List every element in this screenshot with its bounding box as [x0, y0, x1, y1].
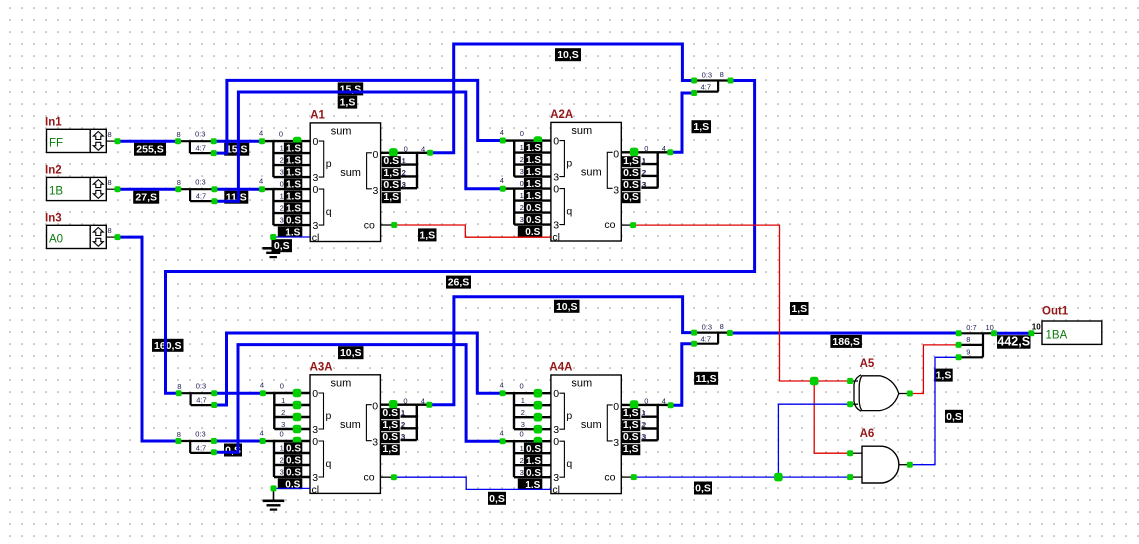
svg-text:10: 10	[1032, 323, 1041, 332]
svg-text:4: 4	[500, 381, 504, 390]
svg-text:1.S: 1.S	[526, 179, 541, 190]
svg-text:0:3: 0:3	[195, 130, 205, 139]
svg-text:q: q	[566, 458, 572, 470]
wire S3 4:7 to A4A p	[214, 333, 502, 405]
svg-text:0: 0	[403, 397, 407, 406]
svg-text:1: 1	[280, 144, 284, 153]
svg-text:0.S: 0.S	[526, 444, 541, 455]
svg-text:sum: sum	[571, 378, 592, 390]
svg-text:0: 0	[312, 436, 318, 448]
A4A q value labels	[518, 443, 543, 491]
svg-text:1,S: 1,S	[623, 407, 639, 419]
A1 sum output comb	[381, 145, 431, 190]
svg-text:26,S: 26,S	[448, 277, 470, 289]
svg-text:2: 2	[280, 156, 284, 165]
svg-text:3: 3	[553, 472, 559, 484]
svg-text:co: co	[604, 472, 615, 484]
A4A sum value labels	[621, 407, 645, 455]
wire A5 out to merger M3 bit8 (1,S)	[910, 345, 959, 394]
svg-text:3: 3	[313, 220, 319, 232]
svg-text:255,S: 255,S	[136, 144, 163, 156]
svg-text:A1: A1	[310, 109, 325, 121]
svg-text:1: 1	[402, 156, 406, 165]
A3A q input comb	[260, 429, 310, 478]
svg-text:1: 1	[520, 444, 524, 453]
wire In3 to splitter S4	[118, 237, 179, 441]
adder A2A	[550, 109, 621, 244]
A2A q input comb	[500, 176, 551, 225]
svg-text:0,S: 0,S	[489, 493, 505, 505]
wire merger M2 out to merger M3 0:7 (186,S)	[730, 332, 959, 335]
svg-text:0:3: 0:3	[196, 382, 206, 391]
svg-text:0,S: 0,S	[695, 483, 711, 495]
A4A sum output comb	[621, 397, 671, 442]
wire A1 cl to ground	[273, 236, 310, 238]
svg-text:sum: sum	[331, 125, 352, 137]
svg-text:8: 8	[177, 430, 181, 439]
label 1,S M1	[692, 120, 712, 133]
svg-text:8: 8	[108, 178, 112, 187]
svg-text:15,S: 15,S	[226, 144, 248, 156]
svg-text:4: 4	[260, 429, 264, 438]
svg-text:sum: sum	[340, 167, 361, 179]
svg-text:8: 8	[720, 70, 724, 79]
svg-text:1B: 1B	[49, 185, 63, 197]
svg-text:A0: A0	[49, 233, 63, 245]
svg-text:4:7: 4:7	[701, 82, 711, 91]
svg-text:11,S: 11,S	[696, 373, 717, 385]
input In2	[45, 164, 118, 200]
svg-text:442,S: 442,S	[997, 335, 1030, 349]
label 27,S	[133, 191, 159, 204]
svg-text:0: 0	[280, 430, 284, 439]
svg-text:co: co	[364, 220, 375, 232]
svg-text:2: 2	[521, 408, 525, 417]
svg-text:1.S: 1.S	[286, 192, 301, 203]
svg-text:cl: cl	[312, 484, 320, 496]
svg-text:q: q	[566, 206, 572, 218]
svg-text:1.S: 1.S	[526, 143, 541, 154]
svg-text:0: 0	[553, 436, 559, 448]
label 1,S A2A co	[790, 302, 809, 315]
svg-text:In3: In3	[45, 212, 62, 224]
svg-text:9: 9	[966, 348, 970, 357]
svg-text:A4A: A4A	[549, 362, 572, 374]
svg-text:0: 0	[313, 184, 319, 196]
A3A p input comb	[260, 381, 310, 430]
svg-text:1.S: 1.S	[286, 180, 301, 191]
svg-text:1,S: 1,S	[693, 121, 709, 133]
A1 sum value labels	[382, 155, 406, 203]
wire S1 4:7 to A2A p (15,S)	[214, 80, 503, 153]
svg-text:4: 4	[662, 144, 666, 153]
svg-text:0: 0	[553, 388, 559, 400]
label 0,S A3A co	[488, 492, 506, 505]
svg-text:A6: A6	[860, 428, 875, 440]
svg-text:1,S: 1,S	[382, 419, 398, 431]
svg-text:0: 0	[312, 388, 318, 400]
label 10,S A3A	[338, 346, 364, 359]
label 10,S mid	[554, 300, 580, 313]
svg-text:0.S: 0.S	[383, 155, 399, 167]
A2A left value labels	[518, 142, 543, 238]
A4A p input comb	[500, 381, 551, 430]
A4A co stub	[621, 476, 634, 478]
svg-text:cl: cl	[312, 232, 320, 244]
svg-text:2: 2	[280, 204, 284, 213]
svg-text:q: q	[326, 206, 332, 218]
svg-text:10,S: 10,S	[557, 49, 579, 61]
svg-text:0: 0	[279, 130, 283, 139]
label 1,S upper	[338, 96, 358, 109]
svg-text:3: 3	[401, 432, 405, 441]
svg-text:8: 8	[966, 335, 970, 344]
wire S3 0:3 to A3A p (10,S)	[214, 392, 263, 395]
svg-text:FF: FF	[49, 137, 63, 149]
label 1,S A1 co	[418, 228, 437, 241]
svg-text:A3A: A3A	[310, 361, 333, 373]
svg-text:0:3: 0:3	[702, 70, 712, 79]
svg-text:1: 1	[401, 408, 405, 417]
wire S4 0:3 to A3A q (0,S)	[214, 440, 263, 443]
splitter S1 (In1 8 to 0:3/4:7)	[177, 130, 214, 153]
svg-text:p: p	[326, 158, 332, 170]
svg-text:1.S: 1.S	[286, 204, 301, 215]
svg-text:1BA: 1BA	[1046, 330, 1068, 342]
wire S2 0:3 to A1 q	[214, 188, 262, 191]
A1 co stub	[381, 224, 395, 226]
label 26,S	[446, 276, 471, 289]
svg-text:In2: In2	[45, 164, 62, 176]
svg-text:4: 4	[662, 397, 666, 406]
svg-text:1.S: 1.S	[286, 156, 301, 167]
svg-text:sum: sum	[581, 419, 602, 431]
svg-text:A2A: A2A	[550, 109, 573, 121]
svg-text:2: 2	[520, 456, 524, 465]
svg-text:1,S: 1,S	[340, 97, 356, 109]
A2A co stub	[621, 224, 633, 226]
input In3	[45, 212, 118, 248]
svg-text:3: 3	[280, 468, 284, 477]
svg-text:2: 2	[402, 168, 406, 177]
svg-text:1: 1	[642, 156, 646, 165]
svg-text:2: 2	[520, 203, 524, 212]
svg-text:1,S: 1,S	[936, 370, 952, 382]
svg-text:2: 2	[520, 155, 524, 164]
svg-text:0.S: 0.S	[382, 407, 398, 419]
svg-text:3: 3	[641, 432, 645, 441]
svg-text:0: 0	[520, 382, 524, 391]
svg-text:0: 0	[644, 397, 648, 406]
svg-text:0.S: 0.S	[526, 215, 541, 226]
svg-text:sum: sum	[340, 419, 361, 431]
svg-text:10,S: 10,S	[340, 347, 362, 359]
svg-text:27,S: 27,S	[135, 192, 157, 204]
merger M1 (A1/A2A sums to 8-bit)	[694, 70, 730, 92]
svg-text:2: 2	[281, 408, 285, 417]
svg-text:3: 3	[280, 216, 284, 225]
svg-text:p: p	[326, 410, 332, 422]
svg-text:1,S: 1,S	[623, 155, 639, 167]
splitter S2 (In2 8 to 0:3/4:7)	[177, 178, 214, 201]
svg-text:1.S: 1.S	[286, 168, 301, 179]
svg-text:4: 4	[421, 145, 425, 154]
svg-text:2: 2	[401, 420, 405, 429]
svg-text:10,S: 10,S	[556, 301, 578, 313]
A2A sum value labels	[622, 155, 646, 203]
splitter S3 (26,S bus 8 to 0:3/4:7)	[177, 382, 214, 405]
A1 q input comb	[259, 177, 310, 226]
A3A sum output comb	[380, 397, 430, 442]
svg-text:4: 4	[500, 128, 504, 137]
svg-text:1,S: 1,S	[623, 419, 639, 431]
A1 cl value label	[272, 239, 293, 252]
svg-text:8: 8	[108, 226, 112, 235]
svg-text:0: 0	[280, 180, 284, 189]
svg-text:1,S: 1,S	[383, 167, 399, 179]
svg-text:4: 4	[500, 429, 504, 438]
svg-text:3: 3	[313, 172, 319, 184]
wire A3A sum to merger M2 0:3 (10,S)	[429, 297, 694, 405]
svg-text:0:3: 0:3	[195, 178, 205, 187]
wire A2A sum to merger M1 4:7	[670, 93, 694, 152]
svg-text:186,S: 186,S	[832, 336, 859, 348]
svg-text:0: 0	[520, 430, 524, 439]
label 1,S A5 out	[934, 369, 953, 382]
svg-text:sum: sum	[581, 166, 602, 178]
svg-text:3: 3	[613, 437, 619, 449]
A2A p input comb	[500, 128, 551, 177]
svg-text:0: 0	[520, 179, 524, 188]
svg-text:3: 3	[642, 180, 646, 189]
adder A1	[310, 109, 380, 244]
svg-text:0:3: 0:3	[195, 430, 205, 439]
svg-text:0.S: 0.S	[286, 216, 301, 227]
svg-text:q: q	[326, 458, 332, 470]
wire A1 co to A2A cl (1,S)	[394, 225, 551, 237]
svg-text:2: 2	[280, 456, 284, 465]
wire branch A2A co to A6	[814, 381, 850, 453]
svg-text:1: 1	[280, 444, 284, 453]
svg-text:3: 3	[553, 424, 559, 436]
wire merger M1 out to splitter S3 (26,S)	[166, 81, 755, 394]
wire S4 4:7 to A4A q	[214, 345, 503, 453]
svg-text:0: 0	[644, 144, 648, 153]
input In1	[45, 116, 118, 152]
svg-text:1,S: 1,S	[382, 443, 398, 455]
label 0,S A4A co	[694, 482, 712, 495]
svg-text:4:7: 4:7	[196, 443, 206, 452]
A3A q value labels	[278, 442, 303, 490]
svg-text:p: p	[566, 158, 572, 170]
ground at A3A cl	[263, 490, 285, 511]
svg-text:1: 1	[280, 192, 284, 201]
A3A sum value labels	[381, 407, 405, 455]
svg-text:3: 3	[553, 172, 559, 184]
label 11,S A4A	[694, 372, 718, 385]
svg-text:0: 0	[313, 136, 319, 148]
svg-text:8: 8	[177, 178, 181, 187]
label 255,S	[134, 143, 166, 156]
svg-text:1,S: 1,S	[383, 191, 399, 203]
svg-text:4:7: 4:7	[196, 144, 206, 153]
merger M3 (0:7,8,9 to 10-bit output)	[959, 323, 994, 357]
svg-text:cl: cl	[552, 232, 560, 244]
adder A4A	[549, 362, 621, 497]
label 0,S A6 out	[945, 410, 963, 423]
svg-text:2: 2	[641, 420, 645, 429]
svg-text:1,S: 1,S	[791, 303, 807, 315]
svg-text:0:3: 0:3	[702, 322, 712, 331]
wire merger M3 out to Out1 (442,S)	[994, 332, 1031, 335]
svg-text:3: 3	[520, 468, 524, 477]
svg-text:3: 3	[372, 437, 378, 449]
label 11,S lower	[224, 191, 248, 204]
svg-text:3: 3	[402, 180, 406, 189]
svg-text:1: 1	[520, 143, 524, 152]
svg-text:Out1: Out1	[1042, 306, 1069, 318]
svg-text:4:7: 4:7	[196, 396, 206, 405]
wire A4A co to A6 (0,S)	[634, 476, 850, 478]
svg-text:1.S: 1.S	[526, 456, 541, 467]
svg-text:3: 3	[280, 168, 284, 177]
svg-text:160,S: 160,S	[154, 340, 181, 352]
svg-text:1.S: 1.S	[526, 155, 541, 166]
A2A sum output comb	[621, 144, 671, 189]
svg-text:0: 0	[520, 129, 524, 138]
svg-text:1: 1	[521, 396, 525, 405]
label 15,S lower	[224, 143, 249, 156]
svg-text:0: 0	[373, 149, 379, 161]
label 10,S top	[555, 48, 581, 61]
wire S1 0:3 to A1 p	[214, 140, 262, 143]
svg-text:0.S: 0.S	[286, 456, 301, 467]
A1 left value labels	[278, 143, 303, 239]
svg-text:8: 8	[108, 130, 112, 139]
svg-text:3: 3	[312, 472, 318, 484]
svg-text:p: p	[566, 410, 572, 422]
svg-text:0.S: 0.S	[383, 179, 399, 191]
svg-text:1: 1	[641, 408, 645, 417]
A3A co stub	[380, 476, 394, 478]
svg-text:2: 2	[642, 168, 646, 177]
svg-text:co: co	[604, 219, 615, 231]
svg-text:3: 3	[613, 184, 619, 196]
svg-text:4:7: 4:7	[701, 334, 711, 343]
svg-text:0: 0	[553, 136, 559, 148]
svg-text:4: 4	[259, 177, 263, 186]
label 0,S splitter S4	[224, 444, 242, 457]
svg-text:4: 4	[259, 129, 263, 138]
A4A q input comb	[500, 429, 551, 478]
svg-text:3: 3	[520, 215, 524, 224]
wire A6 out to merger M3 bit9 (0,S)	[910, 357, 959, 464]
wire A1 sum to merger M1 0:3 (10,S)	[430, 44, 694, 153]
svg-text:0.S: 0.S	[526, 203, 541, 214]
svg-text:0,S: 0,S	[623, 191, 639, 203]
svg-text:sum: sum	[331, 377, 352, 389]
svg-text:3: 3	[312, 424, 318, 436]
svg-text:0: 0	[613, 148, 619, 160]
svg-text:0: 0	[553, 184, 559, 196]
wire In1 to splitter S1	[118, 140, 179, 143]
svg-text:0,S: 0,S	[946, 411, 962, 423]
svg-text:1: 1	[520, 191, 524, 200]
svg-text:0: 0	[372, 401, 378, 413]
svg-text:0: 0	[404, 145, 408, 154]
and gate A6	[850, 428, 910, 483]
svg-text:0: 0	[280, 382, 284, 391]
svg-text:A5: A5	[860, 358, 875, 370]
svg-text:4: 4	[260, 381, 264, 390]
A1 p input comb	[259, 129, 310, 178]
xor gate A5	[850, 358, 910, 411]
svg-text:sum: sum	[571, 125, 592, 137]
label 15,S upper	[338, 82, 364, 95]
svg-text:0: 0	[613, 401, 619, 413]
wire A4A sum to merger M2 4:7 (11,S)	[671, 344, 695, 406]
svg-text:0.S: 0.S	[526, 468, 541, 479]
label 160,S	[152, 339, 184, 352]
wire A3A co to A4A cl (0,S)	[394, 477, 551, 489]
svg-text:15,S: 15,S	[340, 83, 362, 95]
wire A2A co to gates A5/A6 (1,S)	[633, 225, 850, 381]
splitter S4 (In3 8 to 0:3/4:7)	[177, 430, 214, 453]
svg-text:4: 4	[500, 176, 504, 185]
svg-text:8: 8	[177, 382, 181, 391]
svg-text:4: 4	[421, 397, 425, 406]
svg-text:8: 8	[720, 322, 724, 331]
svg-text:3: 3	[373, 185, 379, 197]
label 442,S	[997, 335, 1031, 349]
wire A3A cl to ground	[274, 487, 311, 489]
svg-text:1.S: 1.S	[526, 191, 541, 202]
svg-text:8: 8	[177, 130, 181, 139]
svg-text:In1: In1	[45, 116, 62, 128]
svg-text:0.S: 0.S	[286, 444, 301, 455]
svg-text:0.S: 0.S	[623, 431, 639, 443]
svg-text:3: 3	[520, 167, 524, 176]
svg-text:co: co	[364, 472, 375, 484]
merger M2 (A3A/A4A sums to 186,S bus)	[694, 322, 730, 344]
svg-text:0.S: 0.S	[286, 468, 301, 479]
svg-text:0,S: 0,S	[274, 240, 290, 252]
svg-text:cl: cl	[552, 484, 560, 496]
adder A3A	[310, 361, 381, 496]
svg-text:0.S: 0.S	[382, 431, 398, 443]
svg-text:3: 3	[281, 420, 285, 429]
svg-text:1.S: 1.S	[526, 167, 541, 178]
svg-text:4:7: 4:7	[196, 192, 206, 201]
svg-text:0.S: 0.S	[623, 179, 639, 191]
svg-text:0:7: 0:7	[966, 323, 976, 332]
wire In2 to splitter S2	[118, 188, 179, 191]
svg-text:1,S: 1,S	[623, 443, 639, 455]
svg-text:1,S: 1,S	[419, 229, 435, 241]
svg-text:3: 3	[553, 220, 559, 232]
ground at A1 cl	[262, 237, 284, 258]
svg-text:1.S: 1.S	[286, 144, 301, 155]
label 186,S	[830, 335, 862, 348]
svg-text:1: 1	[281, 396, 285, 405]
wire branch A4A co to A5	[778, 404, 850, 477]
svg-text:0.S: 0.S	[623, 167, 639, 179]
output Out1	[1031, 306, 1101, 345]
wire S2 4:7 to A2A q (1,S)	[214, 92, 502, 201]
svg-text:3: 3	[521, 420, 525, 429]
